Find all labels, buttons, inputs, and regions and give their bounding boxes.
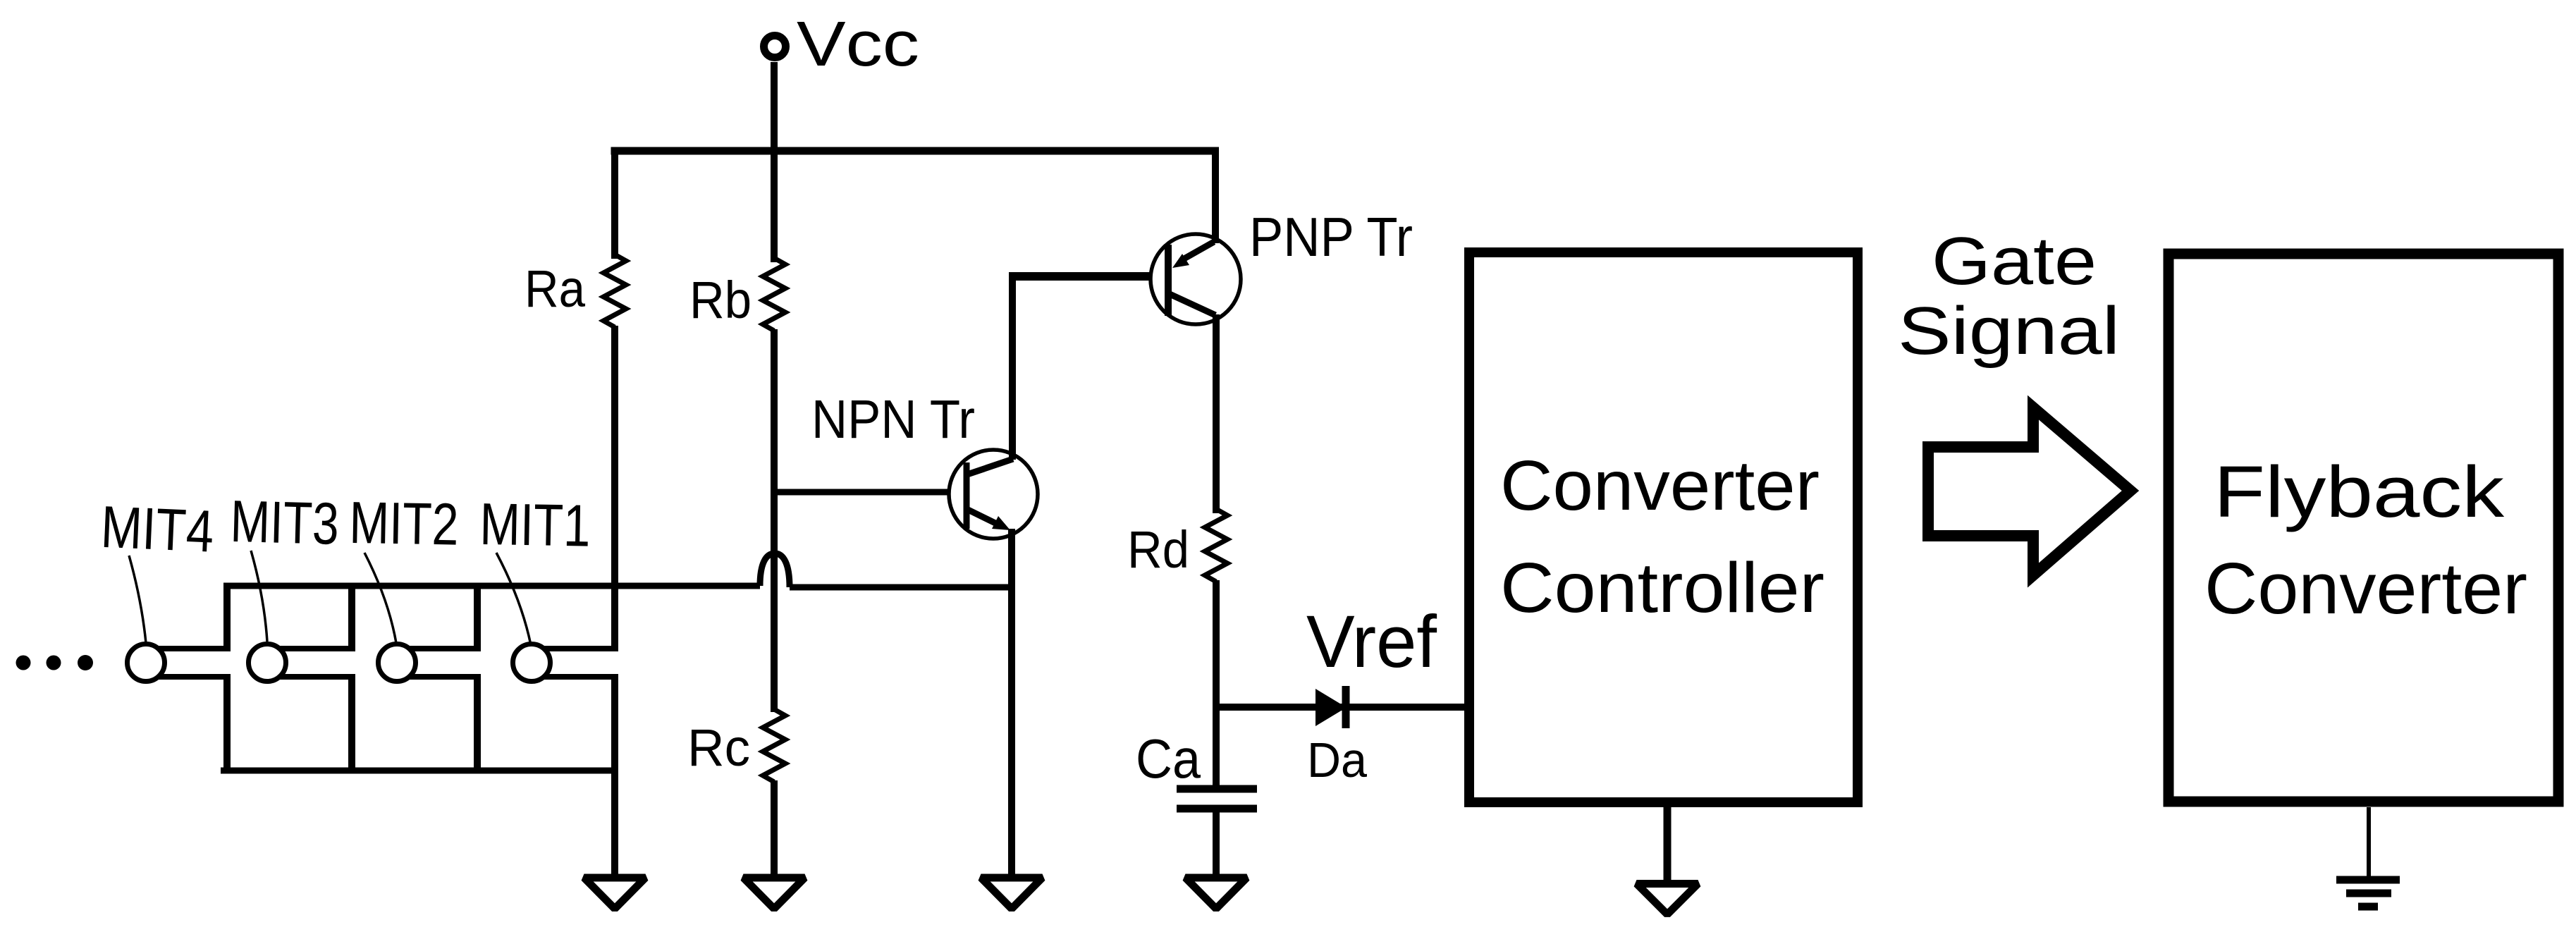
wire switch vertical 2 lower [348, 674, 355, 773]
leader line MIT3 [251, 551, 267, 642]
svg-text:MIT2: MIT2 [349, 489, 460, 558]
wire switch vertical 2 upper [348, 583, 355, 651]
resistor Rc [763, 709, 785, 782]
wire switch bottom bus [221, 768, 618, 774]
ground under controller [1637, 884, 1698, 915]
wire Rc to ground [771, 780, 778, 876]
svg-text:Rb: Rb [689, 271, 752, 329]
wire Rb branch upper [771, 147, 778, 262]
wire NPN collector up [1009, 276, 1016, 460]
svg-text:Rd: Rd [1127, 520, 1189, 579]
wire top bus [611, 147, 1220, 155]
capacitor Ca [1177, 707, 1257, 876]
wire switch vertical 1 lower [223, 674, 231, 773]
wire NPN base [774, 489, 964, 496]
wire flyback ground stem [2367, 807, 2371, 880]
svg-text:Controller: Controller [1500, 548, 1824, 627]
wire switch vertical 3 upper [474, 583, 481, 651]
svg-text:MIT1: MIT1 [479, 491, 591, 559]
svg-text:Ca: Ca [1136, 728, 1201, 790]
switch MIT3 contact circle [249, 644, 286, 682]
svg-text:Da: Da [1307, 732, 1367, 787]
wire MIT3 contacts [267, 649, 352, 677]
transistor NPN Tr [949, 450, 1038, 539]
svg-text:NPN Tr: NPN Tr [811, 389, 975, 450]
resistor Ra [603, 255, 626, 327]
wire Vref node to diode [1213, 704, 1469, 711]
ground under NPN emitter [981, 878, 1043, 909]
leader line MIT1 [496, 553, 531, 645]
svg-text:Vcc: Vcc [797, 9, 919, 80]
wire MIT2 contacts [397, 649, 477, 677]
wire Vcc stem [771, 62, 778, 154]
wire PNP collector down [1213, 314, 1220, 513]
leader line MIT4 [129, 556, 146, 643]
ground under Ra [584, 878, 646, 909]
arrow gate signal [1928, 407, 2130, 575]
wire MIT1 contacts [532, 649, 615, 677]
svg-text:Converter: Converter [1500, 446, 1820, 525]
resistor Rd [1205, 509, 1227, 582]
ground under Ca [1186, 878, 1247, 909]
svg-text:Flyback: Flyback [2214, 451, 2505, 532]
wire switch vertical 3 lower [474, 674, 481, 773]
wire controller ground stem [1664, 807, 1672, 883]
wire Rb to Rc [771, 329, 778, 712]
svg-text:PNP Tr: PNP Tr [1249, 206, 1413, 268]
ground earth under flyback [2336, 880, 2400, 907]
wire Ra branch below switch gap [611, 674, 618, 876]
svg-text:Ra: Ra [525, 259, 586, 318]
svg-text:MIT4: MIT4 [99, 493, 215, 565]
wire hop over Rb line [760, 553, 790, 587]
ellipsis dots [16, 655, 94, 670]
ground under Rc [744, 878, 805, 909]
wire emitter bus left [223, 583, 760, 589]
leader line MIT2 [364, 553, 396, 643]
svg-text:Signal: Signal [1898, 293, 2120, 369]
wire Rd to node [1213, 580, 1220, 711]
switch MIT1 contact circle [513, 644, 551, 682]
Vcc terminal [764, 36, 786, 58]
svg-text:Converter: Converter [2204, 548, 2527, 629]
wire MIT4 contacts [146, 649, 227, 677]
svg-text:Rc: Rc [687, 718, 750, 777]
wire emitter bus right [790, 584, 1015, 591]
resistor Rb [763, 258, 785, 331]
wire collector to PNP base [1009, 272, 1170, 281]
svg-text:MIT3: MIT3 [230, 488, 340, 557]
diode Da [1315, 686, 1347, 728]
transistor PNP Tr [1151, 234, 1241, 324]
switch MIT2 contact circle [379, 644, 416, 682]
svg-text:Vref: Vref [1306, 601, 1437, 683]
wire NPN emitter down [1008, 529, 1015, 876]
wire PNP emitter up [1212, 147, 1219, 243]
block Converter Controller [1469, 252, 1858, 802]
block Flyback Converter [2169, 254, 2558, 802]
wire switch vertical 1 upper [223, 583, 231, 651]
wire Ra branch lower [611, 326, 618, 651]
wire Ra branch upper [611, 147, 618, 259]
switch MIT4 contact circle [128, 644, 165, 682]
svg-text:Gate: Gate [1932, 223, 2097, 299]
